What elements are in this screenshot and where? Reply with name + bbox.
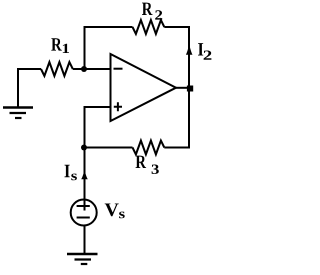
wire R1 to node A — [73, 68, 84, 70]
arrowhead I2 (up, on right rail) — [186, 43, 193, 55]
wire Vs to ground — [84, 226, 86, 255]
label Is — [65, 165, 77, 181]
arrowhead Is (up, on source branch) — [81, 169, 88, 180]
label Vs — [105, 204, 125, 219]
source plus sign bar — [77, 205, 90, 207]
source minus sign bar — [77, 217, 90, 219]
label R2 — [142, 3, 162, 20]
ground (top-left) — [3, 69, 33, 118]
wire node B to R3 — [84, 147, 133, 149]
op-amp minus sign — [114, 68, 123, 70]
node A (inverting input node) — [81, 66, 87, 72]
ground (bottom) — [67, 254, 98, 264]
wire node A to op-amp minus input — [84, 68, 111, 70]
label I2 — [198, 43, 211, 60]
wire right rail (down right side) — [188, 26, 190, 147]
wire R3 to right rail corner — [164, 145, 189, 148]
source Vs circle — [71, 200, 97, 226]
label R3 — [136, 156, 159, 174]
node C (output node, square dot) — [187, 86, 193, 92]
wire plus input to corner and down — [85, 107, 111, 148]
op-amp plus sign — [114, 102, 122, 111]
op-amp U1 — [111, 54, 177, 121]
resistor R3 — [133, 141, 165, 155]
wire R2 to right rail — [164, 26, 189, 28]
wire ground to R1 — [18, 69, 41, 70]
node B (non-inverting / source node) — [81, 145, 87, 151]
resistor R2 — [133, 20, 165, 34]
label R1 — [51, 38, 69, 53]
wire node A up to R2 — [85, 27, 133, 69]
wire op-amp output — [176, 87, 189, 89]
wire node B down to source Vs — [84, 148, 86, 211]
resistor R1 — [41, 62, 73, 76]
